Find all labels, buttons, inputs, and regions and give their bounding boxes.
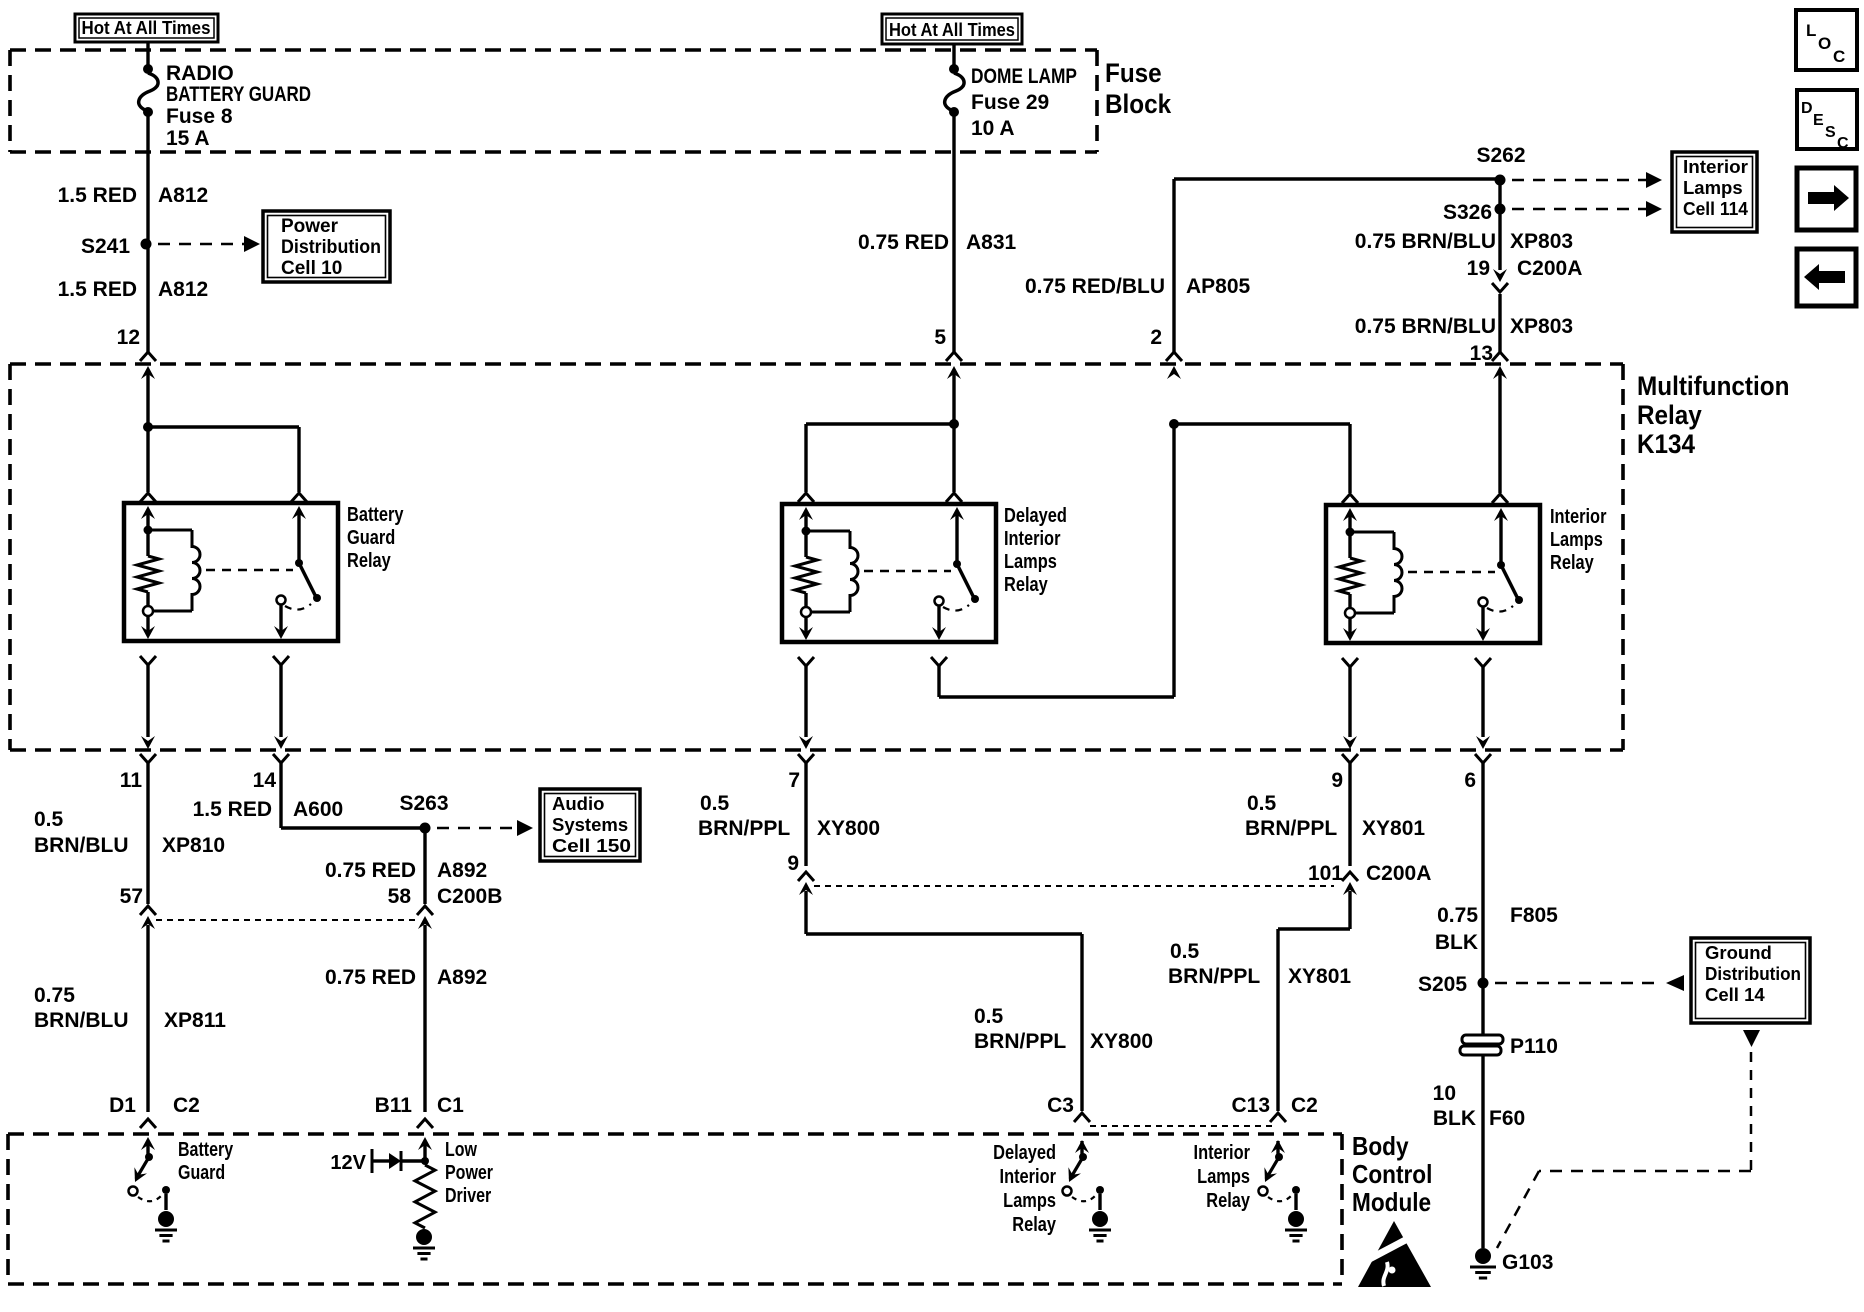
svg-text:Audio: Audio (552, 793, 604, 814)
pin 14 label (253, 769, 277, 792)
svg-text:XP811: XP811 (164, 1009, 226, 1032)
svg-text:Relay: Relay (1206, 1188, 1250, 1211)
fuse F29 text (971, 65, 1077, 140)
svg-text:15 A: 15 A (166, 127, 210, 150)
dashed ground reference path (1497, 1052, 1751, 1248)
label 0.75 BRN/BLU XP803 lower (1355, 315, 1573, 338)
pin 13 label (1470, 342, 1493, 365)
svg-text:9: 9 (1331, 769, 1343, 792)
svg-text:Relay: Relay (347, 548, 391, 571)
svg-text:Delayed: Delayed (1004, 503, 1067, 526)
svg-text:0.5: 0.5 (974, 1005, 1004, 1028)
svg-text:XP803: XP803 (1510, 315, 1573, 338)
svg-text:1.5 RED: 1.5 RED (58, 278, 137, 301)
relay resistor (delayed interior lamps) (795, 531, 817, 607)
wire pin 12 to battery guard relay (146, 374, 149, 492)
relay coil feed entry arrow (battery guard) (141, 506, 155, 530)
svg-text:DOME LAMP: DOME LAMP (971, 65, 1077, 88)
BCM low power driver feed (421, 1141, 429, 1165)
connector crossing pin B11 into BCM (417, 1119, 433, 1150)
pin 12 label (117, 326, 140, 349)
svg-text:C3: C3 (1047, 1094, 1074, 1117)
wire XY801 pin 9 to connector 101 (1348, 763, 1351, 866)
wire from hot feed to fuse F29 (952, 44, 955, 65)
svg-text:B11: B11 (375, 1094, 413, 1117)
wire XP803 upper segment (1498, 183, 1501, 270)
wire AP805 vertical to pin 2 (1172, 179, 1175, 352)
svg-text:6: 6 (1464, 769, 1476, 792)
fuse F8 RADIO BATTERY GUARD 15A (139, 64, 158, 117)
connector crossing pin C3 into BCM (1074, 1113, 1090, 1153)
svg-text:C1: C1 (437, 1094, 464, 1117)
relay switch travel arc (battery guard) (285, 604, 311, 610)
next page arrow button (1797, 168, 1856, 230)
wire XY800 connector 9 to BCM pin C3 (806, 891, 1082, 1111)
relay switch pivot (battery guard) (295, 559, 303, 567)
junction node battery guard feed (143, 422, 153, 432)
pin 6 label (1464, 769, 1476, 792)
svg-text:Relay: Relay (1637, 401, 1702, 430)
splice S263 (399, 792, 448, 834)
relay switch feed arrow (interior lamps) (1494, 508, 1508, 565)
svg-text:10 A: 10 A (971, 117, 1015, 140)
pin 11 label (120, 769, 143, 792)
svg-text:101: 101 (1308, 862, 1343, 885)
svg-text:Module: Module (1352, 1189, 1431, 1218)
svg-text:Interior: Interior (1000, 1164, 1056, 1187)
svg-text:O: O (1818, 34, 1831, 53)
svg-text:BATTERY GUARD: BATTERY GUARD (166, 83, 311, 106)
label 0.5 BRN/PPL XY801 pin9 (1245, 792, 1425, 840)
svg-text:RADIO: RADIO (166, 62, 234, 85)
svg-text:Control: Control (1352, 1161, 1432, 1190)
svg-text:0.75: 0.75 (1437, 904, 1478, 927)
wire XY800 pin 7 to connector 9 (804, 763, 807, 866)
inline connector C200B pin 57 (120, 885, 156, 929)
svg-text:Lamps: Lamps (1004, 549, 1057, 572)
svg-text:S241: S241 (81, 235, 130, 258)
relay switch travel arc (interior lamps) (1487, 606, 1513, 612)
svg-text:0.75 BRN/BLU: 0.75 BRN/BLU (1355, 230, 1496, 253)
relay switch open contact (battery guard) (277, 596, 286, 605)
svg-text:G103: G103 (1502, 1251, 1553, 1274)
label 0.5 BRN/PPL XY800 lower (974, 1005, 1153, 1053)
label 0.5 BRN/PPL XY800 pin7 (698, 792, 880, 840)
svg-text:BRN/PPL: BRN/PPL (974, 1030, 1066, 1053)
svg-text:S326: S326 (1443, 201, 1492, 224)
svg-text:0.5: 0.5 (1247, 792, 1277, 815)
relay coil (battery guard) (148, 530, 200, 611)
pin C3 label (1047, 1094, 1074, 1117)
relay coil (delayed interior lamps) (806, 531, 858, 612)
Delayed relay box (delayed interior lamps) (782, 504, 996, 642)
BCM interior switch label (1194, 1140, 1251, 1211)
svg-text:0.5: 0.5 (1170, 940, 1200, 963)
svg-text:C200A: C200A (1366, 862, 1431, 885)
svg-text:Fuse 8: Fuse 8 (166, 105, 233, 128)
svg-text:P110: P110 (1510, 1035, 1558, 1058)
relay switch output arrow (delayed interior lamps) (932, 606, 946, 640)
svg-text:Cell 14: Cell 14 (1705, 984, 1765, 1005)
hot-at-all-times label box 1 (75, 14, 218, 42)
label 0.5 BRN/PPL XY801 lower (1168, 940, 1351, 988)
BCM delayed interior lamps relay driver switch (1063, 1141, 1112, 1241)
svg-text:Driver: Driver (445, 1184, 491, 1206)
pin 9 label (1331, 769, 1343, 792)
relay switch blade (battery guard) (299, 563, 316, 597)
svg-text:Hot At All Times: Hot At All Times (889, 19, 1015, 40)
svg-text:BRN/PPL: BRN/PPL (698, 817, 790, 840)
battery guard relay exit chevron left (140, 656, 156, 665)
fuse F29 DOME LAMP 10A (945, 64, 964, 117)
relay switch open contact (interior lamps) (1479, 598, 1488, 607)
dashed reference arrow S241 to Power Distribution (158, 236, 260, 252)
BCM battery guard switch (129, 1141, 178, 1241)
svg-text:Battery: Battery (178, 1138, 233, 1160)
wire XP803 lower segment (1498, 294, 1501, 352)
svg-text:BRN/PPL: BRN/PPL (1245, 817, 1337, 840)
relay coil top junction (delayed interior lamps) (802, 527, 811, 536)
svg-text:C: C (1833, 47, 1845, 66)
relay coil bottom terminal (delayed interior lamps) (801, 607, 811, 617)
svg-text:Power: Power (281, 216, 339, 237)
svg-text:0.75 RED: 0.75 RED (325, 966, 416, 989)
label 0.75 RED A892 upper (325, 859, 487, 882)
svg-text:Relay: Relay (1550, 550, 1594, 573)
svg-text:S: S (1825, 124, 1836, 141)
pin 7 label (788, 769, 800, 792)
svg-text:S262: S262 (1476, 144, 1525, 167)
relay resistor (interior lamps) (1339, 532, 1361, 608)
svg-text:A892: A892 (437, 859, 487, 882)
wire branch to battery guard switch feed (148, 427, 299, 492)
relay switch blade (interior lamps) (1501, 565, 1518, 599)
label 0.75 BRN/BLU XP811 (34, 984, 226, 1032)
pin 2 label (1150, 326, 1162, 349)
wire XP811 connector 57 to BCM pin D1 (146, 925, 149, 1112)
svg-text:S205: S205 (1418, 973, 1467, 996)
svg-text:Cell 10: Cell 10 (281, 258, 342, 279)
reference box Audio Systems Cell 150 (540, 789, 640, 861)
ESD sensitivity symbol (1358, 1221, 1431, 1287)
dashed connector line BCM C2 right (1090, 1125, 1272, 1127)
svg-text:BRN/PPL: BRN/PPL (1168, 965, 1260, 988)
connector crossing pin 12 into relay K134 (140, 352, 156, 379)
svg-text:Interior: Interior (1194, 1140, 1250, 1163)
wire pin 6 S205 to P110 (1481, 987, 1484, 1034)
relay switch blade (delayed interior lamps) (957, 564, 974, 598)
connector chevron coil feed delayed relay (798, 493, 814, 502)
fuse block dashed box (10, 50, 1097, 152)
svg-text:Lamps: Lamps (1550, 527, 1603, 550)
relay actuation dashed link (interior lamps) (1408, 571, 1495, 574)
svg-text:D1: D1 (109, 1094, 136, 1117)
relay coil bottom terminal (interior lamps) (1345, 608, 1355, 618)
relay switch blade contact (delayed interior lamps) (971, 595, 979, 603)
label 0.75 RED A892 lower (325, 966, 487, 989)
relay coil feed entry arrow (interior lamps) (1343, 508, 1357, 532)
relay switch travel arc (delayed interior lamps) (943, 605, 969, 611)
wire battery guard pin 11 (146, 665, 149, 737)
svg-text:Systems: Systems (552, 814, 628, 835)
fuse F8 text (166, 62, 311, 150)
interior relay exit chevron left (1342, 658, 1358, 667)
svg-text:Lamps: Lamps (1003, 1188, 1056, 1211)
svg-text:5: 5 (934, 326, 946, 349)
svg-text:0.75 BRN/BLU: 0.75 BRN/BLU (1355, 315, 1496, 338)
pin B11 C1 label (375, 1094, 465, 1117)
svg-text:19: 19 (1467, 257, 1490, 280)
BCM diode (389, 1151, 425, 1171)
wire battery guard pin 14 (279, 665, 282, 737)
relay switch pivot (interior lamps) (1497, 561, 1505, 569)
svg-text:BRN/BLU: BRN/BLU (34, 1009, 129, 1032)
dashed connector line C200B (156, 919, 418, 921)
connector crossing pin 6 (1475, 736, 1491, 763)
relay coil feed entry arrow (delayed interior lamps) (799, 507, 813, 531)
connector crossing pin 5 into relay K134 (946, 352, 962, 379)
svg-text:XP803: XP803 (1510, 230, 1573, 253)
svg-text:Relay: Relay (1004, 572, 1048, 595)
wire pin 13 to interior lamps relay switch (1498, 374, 1501, 493)
multifunction relay K134 label (1637, 372, 1789, 459)
BCM low power driver resistor (415, 1165, 435, 1228)
svg-text:1.5 RED: 1.5 RED (193, 798, 272, 821)
connector chevron switch feed delayed relay (946, 493, 962, 502)
wire interior relay pin 6 (1481, 667, 1484, 737)
svg-text:Guard: Guard (347, 525, 395, 548)
svg-text:Ground: Ground (1705, 942, 1772, 963)
body control module dashed box (8, 1134, 1342, 1284)
wire AP805 horizontal segment (1174, 177, 1500, 180)
Battery relay box (battery guard) (124, 503, 338, 641)
svg-text:0.75 RED: 0.75 RED (325, 859, 416, 882)
svg-text:Body: Body (1352, 1133, 1409, 1162)
reference box Ground Distribution Cell 14 (1691, 938, 1810, 1023)
relay switch open contact (delayed interior lamps) (935, 597, 944, 606)
splice S262 (1476, 144, 1525, 186)
svg-text:0.5: 0.5 (700, 792, 730, 815)
pin C13 C2 label (1231, 1094, 1317, 1117)
wire A892 S263 to connector 58 (423, 833, 426, 904)
BCM battery guard switch label (178, 1138, 233, 1183)
connector chevron coil feed interior relay (1342, 494, 1358, 503)
hot-at-all-times label box 2 (882, 14, 1022, 44)
svg-text:Power: Power (445, 1161, 493, 1183)
svg-text:14: 14 (253, 769, 277, 792)
svg-text:BLK: BLK (1433, 1107, 1476, 1130)
svg-text:Lamps: Lamps (1683, 177, 1743, 198)
inline connector C200A pin 101 (1308, 862, 1431, 895)
connector crossing pin 9 (1342, 736, 1358, 763)
ground G103 (1470, 1248, 1553, 1278)
BCM low power driver ground (413, 1229, 435, 1259)
battery guard relay exit chevron right (273, 656, 289, 665)
svg-text:Block: Block (1105, 90, 1172, 119)
svg-text:Low: Low (445, 1138, 478, 1160)
connector chevron coil feed battery guard (140, 493, 156, 502)
relay name label (battery guard) (347, 502, 404, 571)
svg-text:Interior: Interior (1683, 156, 1748, 177)
BCM interior lamps relay driver switch (1259, 1141, 1308, 1241)
wire A892 connector 58 to BCM pin B11 (423, 925, 426, 1112)
label 0.5 BRN/BLU XP810 (34, 808, 225, 857)
svg-text:Cell 150: Cell 150 (552, 835, 631, 856)
dashed reference arrow S263 to Audio Systems (437, 820, 533, 836)
splice S326 (1443, 201, 1506, 224)
relay switch output arrow (interior lamps) (1476, 607, 1490, 641)
previous page arrow button (1797, 249, 1856, 306)
svg-text:Relay: Relay (1012, 1212, 1056, 1235)
svg-text:XY800: XY800 (1090, 1030, 1153, 1053)
multifunction relay K134 dashed box (10, 364, 1623, 750)
svg-text:Fuse: Fuse (1105, 59, 1162, 88)
body control module label (1352, 1133, 1432, 1218)
svg-text:57: 57 (120, 885, 143, 908)
label 1.5 RED A812 upper (58, 184, 209, 207)
connector crossing pin C13 into BCM (1270, 1113, 1286, 1153)
label 0.75 BRN/BLU XP803 upper (1355, 230, 1573, 253)
dashed connector line C200A (814, 885, 1334, 887)
svg-text:Distribution: Distribution (1705, 963, 1801, 984)
wire interior relay pin 9 (1348, 667, 1351, 737)
inline connector C200A pin 19 (1467, 257, 1583, 292)
connector crossing pin 7 (798, 736, 814, 763)
label 10 BLK F60 (1433, 1082, 1526, 1130)
svg-text:11: 11 (120, 769, 143, 792)
relay name label (interior lamps) (1550, 504, 1606, 573)
relay coil output arrow (battery guard) (141, 616, 155, 639)
dashed reference arrow S205 to Ground Distribution (1495, 975, 1684, 991)
svg-text:Cell 114: Cell 114 (1683, 198, 1749, 219)
svg-text:C200B: C200B (437, 885, 502, 908)
splice S241 (81, 235, 152, 258)
relay actuation dashed link (delayed interior lamps) (864, 570, 951, 573)
svg-text:XY800: XY800 (817, 817, 880, 840)
DESC button (1797, 90, 1857, 152)
svg-text:C13: C13 (1231, 1094, 1270, 1117)
svg-text:0.5: 0.5 (34, 808, 64, 831)
connector chevron switch feed battery guard (291, 493, 307, 502)
relay coil bottom terminal (battery guard) (143, 606, 153, 616)
svg-text:BLK: BLK (1435, 931, 1478, 954)
svg-text:2: 2 (1150, 326, 1162, 349)
label 1.5 RED A812 lower (58, 278, 209, 301)
svg-text:S263: S263 (399, 792, 448, 815)
svg-text:Guard: Guard (178, 1161, 225, 1183)
svg-text:L: L (1806, 21, 1816, 40)
relay actuation dashed link (battery guard) (206, 569, 293, 572)
svg-text:Interior: Interior (1004, 526, 1060, 549)
inline connector C200B pin 58 (388, 885, 503, 929)
grommet P110 (1460, 1035, 1558, 1058)
relay switch output arrow (battery guard) (274, 605, 288, 639)
svg-text:Lamps: Lamps (1197, 1164, 1250, 1187)
reference box Interior Lamps Cell 114 (1672, 152, 1757, 232)
wire A600 pin 14 to splice S263 (281, 763, 425, 828)
relay name label (delayed interior lamps) (1004, 503, 1067, 595)
relay resistor (battery guard) (137, 530, 159, 606)
svg-text:XY801: XY801 (1362, 817, 1425, 840)
svg-text:0.75 RED: 0.75 RED (858, 231, 949, 254)
svg-text:A812: A812 (158, 184, 208, 207)
wire pin 5 to delayed relay switch (952, 374, 955, 492)
delayed relay exit chevron right (931, 657, 947, 666)
svg-text:Multifunction: Multifunction (1637, 372, 1789, 401)
wire F805 pin 6 down to S205 (1481, 763, 1484, 979)
label 0.75 RED/BLU AP805 (1025, 275, 1251, 298)
pin 5 label (934, 326, 946, 349)
relay switch blade contact (interior lamps) (1515, 596, 1523, 604)
svg-text:0.75: 0.75 (34, 984, 75, 1007)
relay coil output arrow (interior lamps) (1343, 618, 1357, 641)
dashed reference arrow S326 to Interior Lamps cell (1512, 201, 1662, 217)
svg-text:XY801: XY801 (1288, 965, 1351, 988)
svg-text:Delayed: Delayed (993, 1140, 1056, 1163)
relay coil output arrow (delayed interior lamps) (799, 617, 813, 640)
svg-text:9: 9 (787, 852, 799, 875)
relay switch pivot (delayed interior lamps) (953, 560, 961, 568)
LOC button (1796, 10, 1857, 70)
svg-text:7: 7 (788, 769, 800, 792)
svg-text:Battery: Battery (347, 502, 404, 525)
wire branch AP805 to interior lamps relay coil (1174, 424, 1350, 493)
svg-text:AP805: AP805 (1186, 275, 1251, 298)
BCM low power driver label (445, 1138, 493, 1206)
interior relay exit chevron right (1475, 658, 1491, 667)
svg-text:12V: 12V (330, 1152, 366, 1174)
svg-text:C2: C2 (1291, 1094, 1318, 1117)
pin D1 C2 label (109, 1094, 200, 1117)
reference box Power Distribution Cell 10 (263, 211, 390, 282)
relay coil top junction (battery guard) (144, 526, 153, 535)
label 0.75 BLK F805 (1435, 904, 1558, 954)
svg-text:1.5 RED: 1.5 RED (58, 184, 137, 207)
label 0.75 RED A831 (858, 231, 1017, 254)
BCM delayed switch label (993, 1140, 1056, 1235)
delayed relay exit chevron left (798, 657, 814, 666)
connector crossing pin 14 (273, 736, 289, 763)
inline connector C200A pin 9 (787, 852, 814, 895)
wire delayed relay pin 7 (804, 666, 807, 737)
junction node delayed relay feed (949, 419, 959, 429)
svg-text:0.75 RED/BLU: 0.75 RED/BLU (1025, 275, 1165, 298)
connector crossing pin 11 (140, 736, 156, 763)
wire XY801 connector 101 to BCM pin C13 (1278, 891, 1350, 1111)
svg-text:A812: A812 (158, 278, 208, 301)
svg-text:F805: F805 (1510, 904, 1558, 927)
fuse block label (1105, 59, 1172, 119)
svg-text:XP810: XP810 (162, 834, 225, 857)
svg-text:Hot At All Times: Hot At All Times (82, 17, 211, 38)
wire branch to delayed relay coil (806, 424, 954, 492)
BCM 12V supply terminal (330, 1149, 389, 1174)
junction node AP805 branch (1169, 419, 1179, 429)
connector crossing pin D1 into BCM (140, 1119, 156, 1150)
svg-text:A600: A600 (293, 798, 343, 821)
svg-text:F60: F60 (1489, 1107, 1525, 1130)
svg-text:12: 12 (117, 326, 140, 349)
relay switch blade contact (battery guard) (313, 594, 321, 602)
relay coil top junction (interior lamps) (1346, 528, 1355, 537)
svg-text:D: D (1801, 100, 1813, 117)
ground distribution exit arrow (1743, 1030, 1760, 1047)
svg-text:A831: A831 (966, 231, 1017, 254)
svg-text:C200A: C200A (1517, 257, 1582, 280)
relay switch feed arrow (delayed interior lamps) (950, 507, 964, 564)
svg-text:Fuse 29: Fuse 29 (971, 91, 1049, 114)
wire F60 P110 to G103 (1481, 1056, 1484, 1248)
